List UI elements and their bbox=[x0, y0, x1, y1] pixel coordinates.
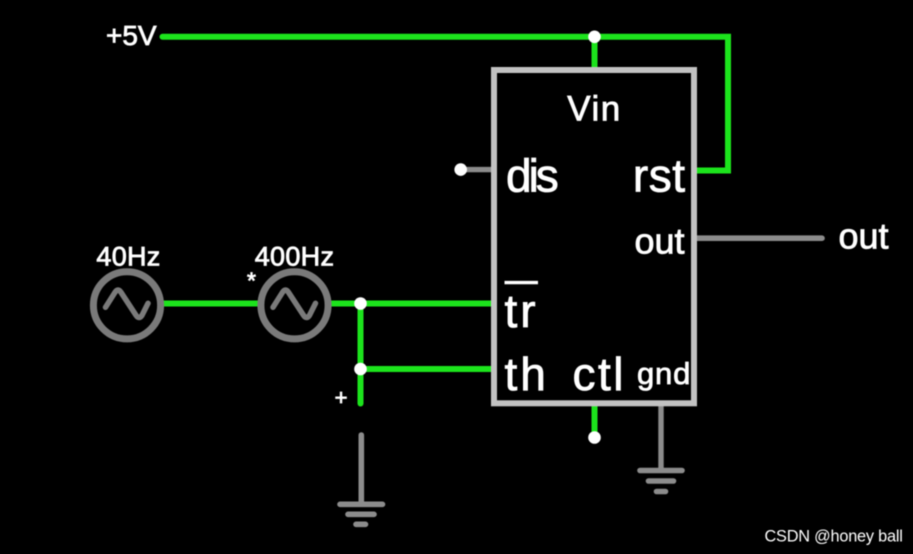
wire dis stub bbox=[461, 167, 495, 172]
svg-text:CSDN @honey ball: CSDN @honey ball bbox=[765, 528, 903, 546]
node junction th row bbox=[354, 363, 367, 376]
svg-text:out: out bbox=[634, 221, 684, 262]
svg-text:+: + bbox=[335, 385, 348, 410]
svg-text:gnd: gnd bbox=[637, 356, 691, 391]
IC U1 555 body bbox=[494, 70, 694, 403]
wire Vin stub bbox=[592, 37, 598, 72]
wire ctl stub bbox=[592, 402, 598, 433]
wire +5V rail top bbox=[163, 37, 729, 171]
source V2 400Hz circle bbox=[261, 272, 328, 339]
svg-text:tr: tr bbox=[505, 285, 539, 337]
wire vertical from node to ground gap bbox=[358, 304, 364, 404]
node ctl terminal bbox=[588, 431, 601, 444]
ground symbol left (source ground) bbox=[340, 435, 383, 524]
wire out bbox=[694, 235, 822, 241]
ground symbol right (gnd) bbox=[640, 471, 682, 492]
svg-text:+5V: +5V bbox=[106, 20, 157, 51]
svg-text:th: th bbox=[505, 348, 549, 400]
wire gnd pin down bbox=[658, 402, 663, 471]
svg-text:Vin: Vin bbox=[567, 90, 621, 129]
svg-text:ctl: ctl bbox=[573, 348, 627, 400]
overline for tr bbox=[505, 281, 539, 284]
svg-text:40Hz: 40Hz bbox=[96, 241, 160, 271]
svg-text:*: * bbox=[247, 268, 256, 294]
node dis terminal bbox=[454, 163, 467, 176]
source V1 40Hz circle bbox=[93, 272, 160, 339]
node junction top rail bbox=[588, 31, 601, 44]
svg-text:out: out bbox=[839, 216, 889, 257]
wire th pin bbox=[361, 366, 496, 372]
svg-text:dis: dis bbox=[506, 150, 558, 202]
svg-text:400Hz: 400Hz bbox=[255, 241, 335, 271]
wire source row to tr pin bbox=[160, 301, 495, 307]
svg-text:rst: rst bbox=[633, 150, 686, 202]
node junction tr row bbox=[354, 297, 367, 310]
